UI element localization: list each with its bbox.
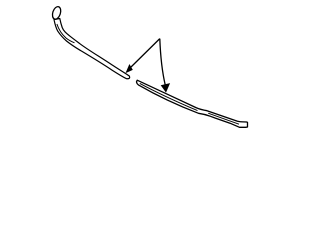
molding piece 1 crease line near bend [57,24,75,43]
molding piece 2 (lower-right bar) outline [137,80,248,127]
arrowhead right [161,83,170,93]
molding piece 1 (upper-left curved strip) body [54,19,130,79]
arrowhead left [126,64,133,73]
arrow shaft right [160,39,165,85]
molding piece 2 crease line (left of jog) [140,83,198,110]
molding piece 1 tip end-cap oval [51,6,62,21]
arrow shaft left [131,39,160,68]
molding piece 2 crease line (right of jog) [208,113,239,124]
